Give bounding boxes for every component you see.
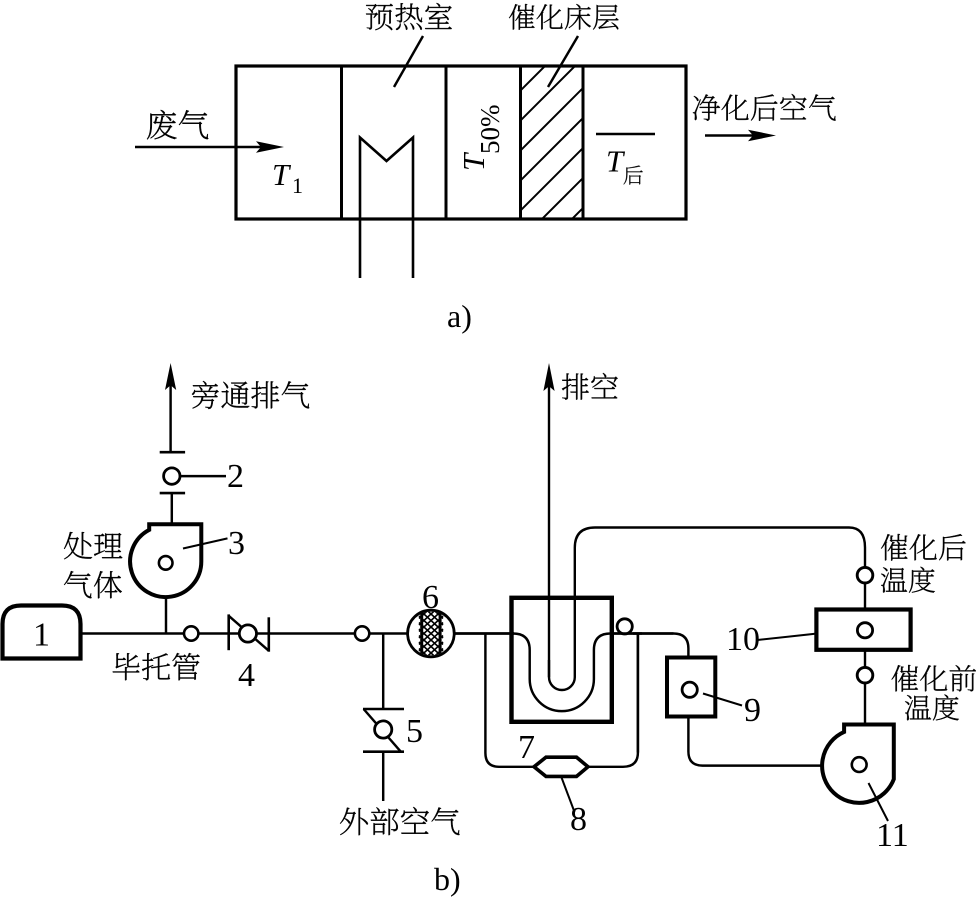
fan 3 outlet line down to pipe (165, 597, 167, 634)
pipe from 6 to furnace (454, 632, 514, 634)
svg-text:11: 11 (876, 817, 909, 854)
wire from 9 to fan 11 (688, 717, 822, 766)
fan 11 (recirculation blower) (822, 725, 894, 803)
gas source vessel 1 (3, 606, 81, 659)
leader line to 催化床层 (548, 36, 578, 87)
signal wire from furnace outlet to transmitter 9 (633, 632, 673, 634)
furnace shell (catalytic combustor) (512, 598, 612, 722)
leader line to 9 (703, 694, 742, 706)
leader line to 8 (562, 778, 575, 813)
svg-text:5: 5 (406, 713, 423, 750)
valve 4 (damper) (227, 614, 230, 650)
chamber outer box (part a) (236, 66, 686, 219)
svg-text:7: 7 (518, 729, 535, 766)
line from 10 down to fan 11 with sensor circle (864, 650, 866, 724)
leader line to 11 (869, 783, 889, 821)
label text "预热室" (366, 4, 393, 30)
valve 5 (damper on air branch) (363, 708, 404, 711)
purified air outlet arrow (705, 134, 755, 136)
svg-text:b): b) (434, 861, 461, 897)
line from sensor to controller 10 (864, 583, 866, 610)
svg-text:1: 1 (33, 617, 50, 654)
vent stack line (548, 380, 550, 677)
svg-text:T: T (606, 144, 626, 179)
svg-text:a): a) (447, 298, 472, 334)
flow path through furnace (in/out curves and outer U) (513, 634, 688, 712)
orifice/venturi 7-8 (hexagon) (534, 757, 588, 776)
leader line to 10 (758, 634, 816, 640)
svg-text:9: 9 (744, 692, 761, 729)
label text "催化后" (881, 534, 908, 561)
svg-text:T: T (272, 157, 292, 192)
label text "温度 (催化后)" (881, 567, 907, 592)
bypass arrow head (165, 363, 176, 390)
label text "毕托管" (113, 653, 140, 680)
furnace outlet line (repair under circle) (613, 632, 642, 634)
measurement point circle on pipe (355, 626, 369, 640)
main pipe (part b) (81, 632, 515, 634)
U-tube inside furnace (549, 528, 865, 690)
svg-text:2: 2 (227, 458, 244, 495)
svg-text:3: 3 (228, 525, 245, 562)
fan 3 (bypass blower) (130, 524, 201, 597)
controller 10 box (816, 610, 910, 650)
transmitter 9 box (667, 658, 715, 717)
burner / heater M symbol in preheating chamber (360, 138, 413, 279)
svg-text:50%: 50% (475, 105, 505, 155)
label text "气体" (64, 571, 92, 598)
label text "废气" (147, 110, 177, 139)
label text "外部空气" (340, 808, 368, 836)
valve 2 (butterfly) (160, 451, 185, 454)
waste gas inlet arrow (135, 146, 262, 148)
svg-text:6: 6 (422, 579, 439, 616)
external-air branch line (382, 634, 384, 710)
pitot tube point (circle on pipe) (184, 626, 198, 640)
overline above T后 (596, 133, 655, 135)
flame arrestor 6 (circle with packed band) (408, 610, 455, 657)
catalytic bed hatched band (519, 66, 522, 219)
label text "温度 (催化前)" (905, 695, 931, 720)
leader line to 3 (183, 538, 228, 548)
svg-text:1: 1 (292, 173, 303, 198)
sensor circle (催化后温度) (857, 567, 873, 583)
label text "催化前" (892, 665, 919, 692)
chamber divider 2 (445, 66, 448, 219)
loop right leg up to pipe (588, 634, 638, 767)
sensor circle (催化前温度) (857, 667, 873, 683)
svg-text:4: 4 (238, 657, 255, 694)
leader line to 预热室 (394, 36, 423, 87)
label T50% (rotated) (456, 105, 505, 172)
svg-text:8: 8 (570, 801, 587, 838)
label text "催化床层" (509, 4, 535, 30)
label text "净化后空气" (693, 94, 720, 120)
label text "处理" (64, 532, 92, 559)
furnace outlet measurement circle (617, 619, 632, 634)
bypass stack line (169, 381, 171, 452)
chamber divider 1 (340, 66, 343, 219)
label text "旁通排气" (192, 381, 219, 409)
label text "排空" (562, 373, 589, 399)
label text "后 (subscript)" (624, 165, 643, 184)
vent arrow head (543, 363, 554, 391)
branch from furnace outlet down to loop (637, 634, 639, 753)
svg-text:10: 10 (726, 621, 760, 658)
recuperator bypass loop left leg (485, 634, 534, 767)
